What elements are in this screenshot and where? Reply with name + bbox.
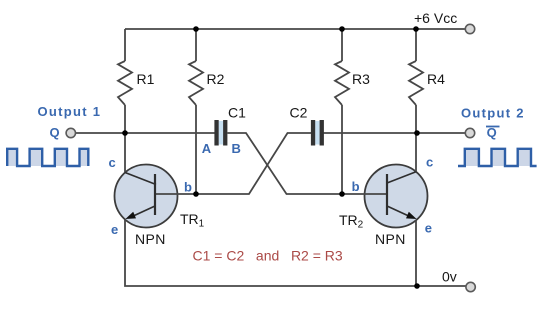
svg-text:0v: 0v: [442, 269, 457, 285]
svg-text:R1: R1: [137, 71, 155, 87]
svg-text:+6 Vcc: +6 Vcc: [414, 10, 457, 26]
svg-text:C1: C1: [228, 105, 246, 121]
svg-text:b: b: [352, 179, 360, 194]
svg-text:C2: C2: [290, 105, 308, 121]
svg-text:B: B: [232, 141, 241, 156]
svg-text:e: e: [111, 222, 118, 237]
svg-text:c: c: [109, 155, 116, 170]
svg-text:Output 2: Output 2: [461, 106, 525, 121]
svg-text:R4: R4: [427, 71, 445, 87]
svg-text:R3: R3: [352, 71, 370, 87]
svg-text:A: A: [202, 141, 212, 156]
svg-text:Q: Q: [50, 125, 60, 140]
svg-text:c: c: [426, 155, 433, 170]
svg-text:NPN: NPN: [135, 231, 166, 247]
svg-text:Output 1: Output 1: [38, 104, 102, 119]
svg-text:e: e: [425, 221, 432, 236]
svg-text:C1 = C2 and R2 = R3: C1 = C2 and R2 = R3: [193, 248, 343, 264]
svg-text:NPN: NPN: [375, 231, 406, 247]
svg-text:R2: R2: [207, 71, 225, 87]
svg-text:b: b: [184, 180, 192, 195]
